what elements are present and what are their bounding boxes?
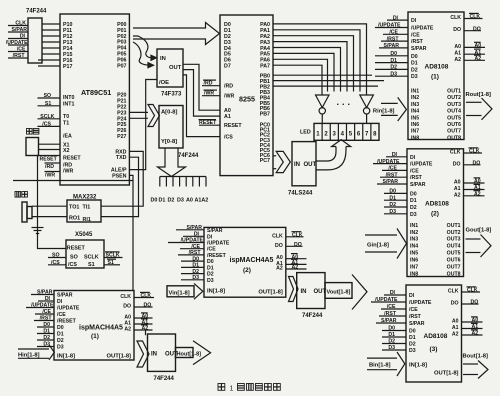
svg-text:P17: P17 [63,64,72,70]
svg-text:IN5: IN5 [410,251,418,257]
stub CLK out of ispMACH-2 [286,232,304,239]
svg-text:OUT2: OUT2 [447,230,461,236]
svg-text:D2: D2 [388,339,395,345]
wire P23 to address buffer [129,111,148,113]
svg-text:PB7: PB7 [260,112,270,118]
wire P24 to address buffer [129,117,148,119]
svg-text:PSEN: PSEN [112,173,127,179]
svg-text:DO: DO [453,161,461,167]
stub DO out of AD8108-3 [462,300,479,306]
svg-text:74F373: 74F373 [161,92,182,98]
bus arrow P00-P07 to 8255 data bus [133,23,220,45]
svg-text:· · ·: · · · [337,100,351,110]
stub SCLK of X5045 [104,252,123,259]
svg-text:D2: D2 [207,272,214,278]
svg-text:/RST: /RST [13,53,26,59]
svg-text:DO: DO [294,242,302,248]
svg-text:A2: A2 [276,266,283,272]
stub DI of ispMACH-2 [183,232,204,238]
svg-text:D0: D0 [57,325,64,331]
wire S/PAR input [8,31,28,33]
wire 74F373 OUT to 8255 A1 [183,70,220,117]
svg-text:(1): (1) [431,74,439,81]
svg-text:D1: D1 [410,198,417,204]
svg-text:IN4: IN4 [410,244,418,250]
stub DO out of AD8108-1 [464,26,481,32]
svg-text:/CE: /CE [17,47,26,53]
svg-text:CLK: CLK [15,21,26,27]
svg-text:DI: DI [410,155,416,161]
wire P03 curve to 74F373 [133,42,154,68]
wire bus: top-left 74F244 buffer input CLK [8,25,28,27]
svg-text:OUT5: OUT5 [447,115,461,121]
svg-text:/RST: /RST [410,175,423,181]
svg-text:/EA: /EA [63,134,72,140]
stub D2 of AD8108-2 [384,202,407,208]
stub D3 of AD8108-2 [384,209,407,215]
svg-text:/RST: /RST [387,36,400,42]
svg-text:IN7: IN7 [411,129,419,135]
svg-text:/UPDATE: /UPDATE [411,26,434,32]
svg-text:/RST: /RST [386,172,399,178]
svg-text:A0: A0 [475,43,482,49]
svg-text:/RD: /RD [63,162,72,168]
svg-text:D0: D0 [43,322,50,328]
svg-text:TXD: TXD [116,155,127,161]
svg-text:/UPDATE: /UPDATE [410,162,433,168]
wire horizontal net [13,180,133,182]
arrow into A[0-8] [148,105,160,127]
wire /WR to 8255 [202,90,220,97]
stub A0 of AD8108-2 [464,178,485,185]
stub S1 of X5045 [104,259,120,266]
svg-text:RESET: RESET [224,123,242,129]
svg-text:D1: D1 [159,198,166,204]
wire TXD to MAX232 RI1 [101,157,139,216]
svg-text:DI: DI [393,15,399,21]
svg-text:74F244: 74F244 [26,9,47,15]
svg-text:/UPDATE: /UPDATE [57,306,80,312]
arrow Bout [463,361,488,379]
svg-text:/RST: /RST [411,39,424,45]
svg-text:/UPDATE: /UPDATE [181,238,204,244]
stub /RST of AD8108-1 [381,36,408,42]
arrow 8255 PC to 74LS244 [276,151,290,172]
svg-text:RESET: RESET [199,120,217,126]
stub D2 of ispMACH-2 [181,269,204,275]
svg-text:S1: S1 [88,262,95,268]
stub CLK out of ispMACH-1 [134,292,154,299]
svg-text:/UPDATE: /UPDATE [6,40,28,46]
svg-text:IN1: IN1 [410,223,418,229]
svg-text:CLK: CLK [292,233,303,239]
svg-text:D3: D3 [177,198,184,204]
svg-text:/CE: /CE [191,244,200,250]
serial connector J1 [22,202,32,222]
wire SO to INT0 [38,97,61,99]
svg-text:/UPDATE: /UPDATE [378,23,401,29]
svg-text:DO: DO [144,303,152,309]
svg-text:7: 7 [365,131,369,137]
svg-text:X2: X2 [63,148,70,154]
svg-text:/UPDATE: /UPDATE [409,300,432,306]
microcontroller U1 AT89C51 [60,14,129,185]
svg-text:D1: D1 [57,332,64,338]
arrow Hout[1-8] output [176,341,211,365]
wire RESET net to X5045 [38,156,66,249]
svg-text:D3: D3 [409,348,416,354]
svg-text:/CE: /CE [387,304,396,310]
svg-text:IN6: IN6 [411,122,419,128]
arrow Vout[1-8] output [325,275,367,310]
stub A1 of AD8108-2 [464,184,485,191]
stub A0 of AD8108-1 [464,42,485,49]
svg-text:S/PAR: S/PAR [384,43,400,49]
svg-text:IN[1-8]: IN[1-8] [409,363,427,369]
stub A0 of ispMACH-1 [134,313,153,320]
svg-text:D2: D2 [43,335,50,341]
svg-text:D0: D0 [151,198,158,204]
svg-text:SO: SO [44,93,52,99]
svg-text:/OE: /OE [159,80,169,86]
svg-text:/CS: /CS [224,135,233,141]
labels D0 D1 D2 D3 A0 A1 A2 [151,198,209,204]
buffer U-74F244 top-left [26,9,47,64]
svg-text:OUT1: OUT1 [447,223,461,229]
stub /CE of ispMACH-2 [180,244,204,250]
svg-text:OUT3: OUT3 [447,237,461,243]
stub CLK out of AD8108-3 [462,287,481,294]
svg-text:A2: A2 [474,192,481,198]
svg-text:74F244: 74F244 [154,376,175,382]
svg-text:/CS: /CS [42,121,51,127]
svg-text:IN3: IN3 [411,102,419,108]
svg-text:D2: D2 [57,338,64,344]
buffer U3 74F244 address [159,106,199,159]
svg-text:8: 8 [373,131,377,137]
svg-text:D2: D2 [192,269,199,275]
svg-text:CLK: CLK [470,14,481,20]
svg-text:2: 2 [324,131,328,137]
svg-text:D3: D3 [388,345,395,351]
stub D0 of ispMACH-1 [37,322,54,328]
arrow Gout [466,235,492,258]
svg-text:S/PAR: S/PAR [383,179,399,185]
crosspoint switch U8 AD8108 (3) [406,285,462,382]
stub A1 of ispMACH-1 [134,319,153,326]
stub A1 of ispMACH-2 [286,259,307,266]
wire /RD stub [45,162,61,164]
wire P16 [38,59,60,61]
svg-text:D0: D0 [411,54,418,60]
svg-text:A2: A2 [292,265,299,271]
svg-text:CLK: CLK [469,149,480,155]
svg-text:A1: A1 [224,114,231,120]
svg-text:OUT8: OUT8 [447,272,461,278]
svg-text:D3: D3 [411,74,418,80]
arrow Vin[1-8] input [167,283,203,299]
svg-text:SO: SO [70,255,78,261]
wire serial to MAX232 RO1 [32,216,67,218]
svg-text:Rout[1-8]: Rout[1-8] [466,92,492,98]
stub A1 of AD8108-3 [462,323,483,330]
svg-text:S/PAR: S/PAR [409,321,425,327]
svg-text:/CE: /CE [410,168,419,174]
svg-text:OUT7: OUT7 [447,129,461,135]
svg-text:D2: D2 [410,205,417,211]
svg-text:A1: A1 [454,186,461,192]
svg-text:RO1: RO1 [69,216,80,222]
wire P17 [38,65,60,67]
svg-text:/RST: /RST [409,314,422,320]
stub D1 of AD8108-2 [384,195,407,201]
svg-text:D2: D2 [389,202,396,208]
stub D1 of AD8108-1 [375,58,408,64]
svg-text:1: 1 [230,385,234,392]
svg-text:74LS244: 74LS244 [288,190,313,196]
svg-text:/RD: /RD [224,84,233,90]
svg-text:D1: D1 [192,263,199,269]
svg-text:/RD: /RD [45,164,54,170]
stub /RST of AD8108-3 [379,311,406,317]
svg-text:DO: DO [451,301,459,307]
wire 74F373 OUT to 8255 /CS [183,75,220,137]
stub S/PAR of ispMACH-1 [31,290,54,296]
svg-text:/WR: /WR [63,169,73,175]
svg-text:CLK: CLK [272,233,283,239]
eeprom U10 X5045 [66,232,104,268]
svg-text:OUT[1-8]: OUT[1-8] [434,370,459,376]
wire S1 to INT1 [38,105,61,107]
svg-text:ispMACH4A5: ispMACH4A5 [79,325,123,332]
stub /UPDATE of AD8108-1 [375,23,408,29]
svg-text:RESET: RESET [63,156,81,162]
stub D2 of AD8108-3 [382,339,406,345]
cpld U13 ispMACH4A5 (2) [204,227,286,297]
stub A2 of AD8108-1 [464,55,485,62]
stub D3 of ispMACH-2 [181,275,204,281]
ground [32,228,44,234]
svg-text:D2: D2 [411,67,418,73]
svg-text:5: 5 [349,131,353,137]
svg-text:/CE: /CE [57,312,66,318]
svg-text:OUT6: OUT6 [447,258,461,264]
svg-text:A2: A2 [454,192,461,198]
svg-text:/RD: /RD [204,81,213,87]
svg-text:A2: A2 [142,326,149,332]
svg-text:A0: A0 [186,198,193,204]
svg-text:S/PAR: S/PAR [187,225,203,231]
svg-text:D1: D1 [43,329,50,335]
wire fan-out collector [160,177,206,187]
svg-text:D0: D0 [410,191,417,197]
svg-text:S/PAR: S/PAR [207,228,223,234]
arrow Y[0-8] fan-out [158,148,186,177]
wire PC stub upper [273,155,276,157]
buffer U12 74F244 bottom-left [148,334,179,382]
stub DI of AD8108-3 [384,290,406,296]
svg-text:IN: IN [151,351,157,357]
svg-text:DI: DI [392,152,398,158]
svg-text:DI: DI [57,299,63,305]
svg-text:S1: S1 [45,101,51,107]
stub S/PAR of AD8108-3 [376,318,406,324]
svg-text:IN8: IN8 [411,135,419,141]
stub D1 of ispMACH-1 [37,329,54,335]
svg-text:/RESET: /RESET [207,253,227,259]
transceiver U9 MAX232 [67,195,101,224]
svg-text:SO: SO [52,253,60,259]
svg-text:OUT: OUT [169,65,182,71]
svg-text:/CE: /CE [409,307,418,313]
wire /CE input [8,51,28,53]
svg-text:CLK: CLK [448,289,459,295]
svg-text:OUT[1-8]: OUT[1-8] [258,290,283,296]
svg-text:/UPDATE: /UPDATE [31,303,54,309]
serial port label [15,192,21,198]
svg-text:A2: A2 [454,57,461,63]
svg-text:S1: S1 [108,260,114,266]
crosspoint switch U7 AD8108 (2) [407,149,464,278]
svg-text:S/PAR: S/PAR [410,182,426,188]
svg-text:RESET: RESET [67,246,86,252]
stub /UPDATE of AD8108-3 [371,297,406,303]
crystal Y1 label [27,129,33,135]
svg-text:IN[1-8]: IN[1-8] [207,289,225,295]
svg-text:A2: A2 [124,327,131,333]
svg-text:OUT2: OUT2 [447,95,461,101]
stub D3 of ispMACH-1 [37,342,54,348]
stub S/PAR of ispMACH-2 [176,225,204,231]
svg-text:RI1: RI1 [83,217,91,223]
stub DO out of ispMACH-2 [286,242,303,248]
svg-text:CLK: CLK [120,294,131,300]
svg-text:/UPDATE: /UPDATE [207,241,230,247]
svg-text:D0: D0 [207,259,214,265]
stub D0 of AD8108-1 [375,51,408,57]
svg-text:A0: A0 [454,180,461,186]
stub A2 of ispMACH-1 [134,325,153,332]
svg-text:(1): (1) [91,333,99,340]
svg-text:/UPDATE: /UPDATE [375,297,398,303]
svg-text:Gout[1-8]: Gout[1-8] [466,228,492,234]
label Rin[1-8] net [373,97,407,121]
wire PB1 [273,80,384,82]
wire inverter V8 to LED [366,114,368,123]
cpld U11 ispMACH4A5 (1) [54,291,134,361]
stub /UPDATE of AD8108-2 [373,159,407,165]
svg-text:(2): (2) [431,211,439,218]
svg-text:A2: A2 [475,56,482,62]
svg-text:OUT: OUT [304,162,317,168]
wire /RD to 8255 [202,80,220,87]
svg-text:Rin[1-8]: Rin[1-8] [373,108,395,114]
svg-text:A1A2: A1A2 [195,198,209,204]
wire /UPDATE input [8,44,28,46]
wire RESET to 8255 [199,120,221,127]
svg-text:D3: D3 [192,275,199,281]
svg-text:D3: D3 [207,278,214,284]
stub A0 of AD8108-3 [462,317,483,324]
arrow Gin[1-8] input [365,229,407,259]
svg-text:D0: D0 [409,329,416,335]
svg-text:IN8: IN8 [410,272,418,278]
wire PB2 [273,85,378,87]
svg-text:/CE: /CE [207,247,216,253]
svg-text:(3): (3) [430,346,438,353]
svg-text:D7: D7 [224,64,231,70]
stub A2 of AD8108-3 [462,330,483,337]
buffer U14 74F244 bottom-middle [297,273,327,320]
svg-text:D3: D3 [43,342,50,348]
svg-text:D1: D1 [388,332,395,338]
svg-text:OUT7: OUT7 [447,265,461,271]
svg-text:3: 3 [332,131,336,137]
svg-text:D2: D2 [409,342,416,348]
svg-text:Gin[1-8]: Gin[1-8] [367,243,389,249]
svg-text:/RST: /RST [189,250,202,256]
stub /RST of ispMACH-2 [178,250,204,256]
svg-text:(2): (2) [243,267,251,274]
stub /CE of ispMACH-1 [35,309,54,315]
svg-text:OUT[1-8]: OUT[1-8] [107,354,132,360]
svg-text:INT1: INT1 [63,101,75,107]
arrow ispMACH-2 OUT to 74F244 [289,277,299,302]
wire inverter V1 to LED [321,114,323,123]
wire /RST input [8,57,28,59]
svg-text:DO: DO [453,27,461,33]
svg-text:CLK: CLK [467,288,478,294]
svg-text:IN2: IN2 [411,95,419,101]
svg-text:CLK: CLK [450,150,461,156]
wire PSEN vertical [129,175,133,290]
stub A0 of ispMACH-2 [286,254,307,261]
svg-text:DO: DO [275,243,283,249]
svg-text:Hout[1-8]: Hout[1-8] [177,351,202,357]
svg-text:IN: IN [294,162,300,168]
stub DO out of AD8108-2 [464,161,481,167]
peripheral U4 8255 [220,15,273,176]
stub D2 of ispMACH-1 [37,335,54,341]
stub D2 of AD8108-1 [375,65,408,71]
stub /UPDATE of ispMACH-2 [168,238,204,244]
svg-text:IN: IN [160,56,166,62]
stub D1 of ispMACH-2 [181,263,204,269]
svg-text:DI: DI [409,293,415,299]
wires 74F244 outputs to P10-P15 [42,24,60,54]
svg-text:D1: D1 [389,195,396,201]
stub D0 of ispMACH-2 [181,256,204,262]
svg-text:P07: P07 [117,63,126,69]
svg-text:PA7: PA7 [260,64,270,70]
stub A2 of ispMACH-2 [286,264,307,271]
svg-text:S/PAR: S/PAR [12,27,28,33]
svg-text:/CE: /CE [411,32,420,38]
svg-text:OUT5: OUT5 [447,251,461,257]
stub /CE of AD8108-2 [382,166,407,172]
stub S/PAR of AD8108-2 [377,179,407,185]
stub /CE of AD8108-3 [381,304,406,310]
svg-text:IN4: IN4 [411,109,419,115]
wire /OE to ALE/P [129,80,157,170]
wire crystal to X1 [39,143,61,145]
crosspoint switch U6 AD8108 (1) [408,12,464,141]
svg-text:S/PAR: S/PAR [381,318,397,324]
svg-text:P27: P27 [117,134,126,140]
svg-text:AD8108: AD8108 [425,201,449,208]
svg-text:A1: A1 [452,325,459,331]
svg-text:/RST: /RST [40,316,53,322]
